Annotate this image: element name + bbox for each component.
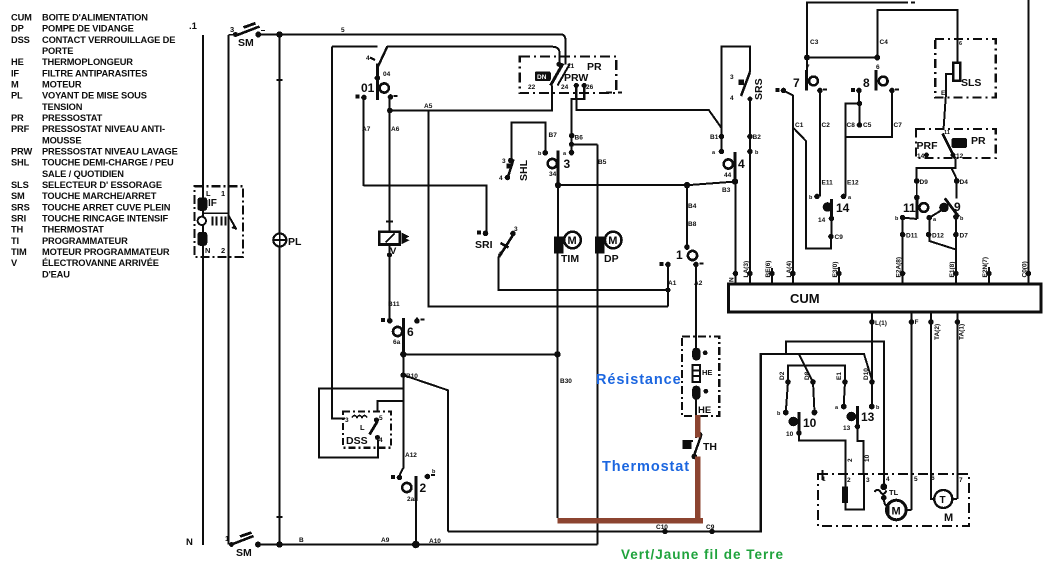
svg-text:HE: HE [11, 57, 24, 67]
wire label 5 [341, 27, 345, 34]
wire SRS bracket [722, 47, 751, 137]
svg-text:V: V [11, 258, 18, 268]
wire switch 14 to C9 [831, 219, 833, 237]
svg-text:11: 11 [944, 130, 950, 136]
wire bus y=185 to switch 4 [558, 182, 736, 186]
svg-text:D12: D12 [932, 233, 944, 240]
node C10 [662, 529, 668, 535]
svg-text:.1: .1 [189, 21, 198, 32]
svg-text:7: 7 [959, 477, 963, 484]
motor TIM [554, 185, 581, 265]
svg-text:13: 13 [861, 410, 875, 424]
wire N rail (filtered) [228, 35, 230, 545]
svg-text:DP: DP [604, 253, 619, 265]
pressostat PRW labels [528, 61, 602, 91]
svg-text:E11: E11 [822, 180, 834, 187]
svg-text:THERMOSTAT: THERMOSTAT [42, 225, 104, 235]
svg-text:DN: DN [537, 74, 547, 81]
svg-text:9: 9 [954, 200, 961, 214]
heater HE internals [692, 348, 712, 416]
wire switch 2 down to bus [415, 501, 417, 545]
svg-text:1: 1 [676, 248, 683, 262]
svg-text:TOUCHE RINCAGE INTENSIF: TOUCHE RINCAGE INTENSIF [42, 214, 168, 224]
svg-text:B30: B30 [560, 378, 572, 385]
svg-text:6a: 6a [393, 339, 401, 346]
motor box dashed [818, 474, 969, 526]
svg-text:PRW: PRW [564, 72, 588, 84]
wire PL rail [279, 35, 281, 545]
svg-text:DSS: DSS [11, 35, 30, 45]
wire D11 to CUM E2A [902, 218, 904, 274]
svg-text:D'EAU: D'EAU [42, 269, 70, 279]
svg-text:B3: B3 [722, 187, 731, 194]
svg-text:L: L [206, 189, 211, 198]
svg-text:14: 14 [818, 217, 826, 224]
svg-text:D10: D10 [863, 368, 870, 380]
svg-text:SELECTEUR D' ESSORAGE: SELECTEUR D' ESSORAGE [42, 180, 162, 190]
wire switch10 output to motor terminal 2 [799, 433, 846, 487]
svg-text:PR: PR [11, 113, 24, 123]
selector SLS dashed box [935, 39, 996, 98]
svg-text:44: 44 [724, 172, 732, 179]
svg-text:N: N [186, 537, 193, 548]
svg-text:2: 2 [847, 458, 854, 462]
wire PRF to 11/9 bracket [917, 159, 957, 199]
switch 3 [548, 151, 571, 186]
svg-text:11: 11 [903, 201, 916, 215]
svg-text:1: 1 [221, 189, 225, 198]
node .1 label [189, 21, 198, 32]
svg-text:E1(8): E1(8) [949, 262, 956, 278]
svg-text:13: 13 [843, 425, 851, 432]
wire A1 down to y=307 [667, 265, 669, 307]
svg-text:4: 4 [366, 55, 370, 62]
wire B1 to switch 4 a [721, 137, 723, 152]
svg-text:6: 6 [407, 325, 414, 339]
wire feeder bracket H2 [761, 354, 873, 532]
svg-text:PL: PL [11, 91, 23, 101]
svg-text:4: 4 [738, 157, 745, 171]
svg-text:10: 10 [803, 416, 817, 430]
node CUM terminal N [729, 271, 739, 284]
wire DP down to bottom bus [596, 254, 598, 545]
switch SHL [499, 158, 530, 182]
svg-text:L: L [360, 423, 365, 432]
node CUM terminal E3(0) [832, 262, 842, 284]
svg-text:TL: TL [889, 488, 899, 497]
node CUM bottom terminal TA(2) [928, 312, 941, 340]
svg-text:8: 8 [863, 76, 870, 90]
switch 8 [851, 64, 899, 93]
svg-text:MOUSSE: MOUSSE [42, 135, 81, 145]
svg-text:SRI: SRI [11, 214, 26, 224]
label Resistance blue [596, 372, 682, 388]
wire B10 node [400, 354, 403, 477]
node D4 [954, 178, 960, 184]
svg-text:HE: HE [702, 368, 712, 377]
wire PRW 24/26 U and down to B6 [572, 86, 585, 136]
wire B6 to switch3/B5 junction [572, 136, 598, 153]
wire C0 from top edge [1028, 0, 1030, 274]
label Vert/Jaune fil de Terre green [621, 547, 784, 562]
svg-text:SM: SM [11, 191, 25, 201]
wire from A5 down x=428.6 to y=307 [429, 111, 668, 307]
svg-text:C0(0): C0(0) [1022, 261, 1029, 277]
svg-text:SRI: SRI [475, 239, 493, 251]
wire feeder bracket H1 to motor terminal 4 [786, 342, 884, 475]
svg-text:B8: B8 [688, 221, 697, 228]
wire switch6 junction right to TIM rail [403, 353, 557, 355]
svg-text:SLS: SLS [11, 180, 29, 190]
svg-text:B: B [299, 537, 304, 544]
wire TA(2) rail to tacho T [931, 322, 934, 499]
svg-text:ÉLECTROVANNE ARRIVÉE: ÉLECTROVANNE ARRIVÉE [42, 258, 159, 268]
svg-text:3: 3 [866, 477, 870, 484]
svg-text:TA(2): TA(2) [934, 324, 941, 340]
svg-text:DP: DP [11, 24, 24, 34]
svg-text:C2: C2 [822, 122, 831, 129]
wire label A9 [381, 537, 390, 544]
svg-text:D4: D4 [960, 179, 969, 186]
svg-text:6: 6 [959, 41, 962, 47]
svg-text:PORTE: PORTE [42, 46, 73, 56]
wire C8/E12 from switch 8a [846, 91, 860, 197]
node junction dot top bus [276, 31, 282, 37]
node CUM terminal E2A(8) [896, 257, 906, 284]
svg-text:24: 24 [561, 84, 569, 91]
svg-text:PR: PR [587, 61, 602, 73]
svg-text:PRW: PRW [11, 147, 32, 157]
wire earth line C10-C9 [448, 354, 761, 532]
svg-text:PRESSOSTAT: PRESSOSTAT [42, 113, 103, 123]
lamp PL [273, 234, 302, 249]
wire DSS terminal 5 tap [378, 401, 404, 412]
switch 01 [356, 46, 398, 100]
svg-text:3: 3 [730, 74, 734, 81]
node junction dot A5 [387, 108, 393, 114]
svg-text:PRF: PRF [11, 124, 30, 134]
node CUM terminal BE(6) [765, 261, 775, 284]
svg-text:2: 2 [847, 477, 851, 484]
svg-text:MOTEUR PROGRAMMATEUR: MOTEUR PROGRAMMATEUR [42, 247, 170, 257]
svg-text:CONTACT VERROUILLAGE DE: CONTACT VERROUILLAGE DE [42, 35, 175, 45]
switch 11 [895, 181, 928, 222]
svg-text:L(1): L(1) [875, 320, 887, 327]
svg-text:SHL: SHL [11, 158, 30, 168]
wire D7 to CUM E1 [955, 217, 957, 274]
pressostat PRF dashed box [916, 129, 996, 158]
svg-text:Vert/Jaune fil de Terre: Vert/Jaune fil de Terre [621, 547, 784, 562]
motor box terminal labels [822, 475, 963, 484]
svg-text:D9: D9 [920, 179, 929, 186]
svg-text:7: 7 [806, 64, 810, 71]
wire B2 through switch 4 b down to CUM LA(3) [749, 137, 751, 274]
label Thermostat blue [602, 459, 690, 475]
wire C7 from switch 8b loop [846, 91, 893, 138]
wire B3 down to CUM N [735, 182, 737, 274]
svg-text:14: 14 [836, 201, 850, 215]
switch SRI [475, 226, 518, 258]
svg-text:10: 10 [864, 454, 871, 462]
svg-text:04: 04 [383, 71, 391, 78]
svg-text:TIM: TIM [561, 253, 579, 265]
svg-text:C9: C9 [706, 524, 715, 531]
thermal cutout TL [875, 342, 899, 501]
svg-text:E1: E1 [836, 372, 843, 380]
thermostat TH [683, 433, 718, 460]
svg-text:A5: A5 [424, 103, 433, 110]
svg-text:3: 3 [345, 417, 349, 424]
wire A2 down to HE [695, 265, 697, 349]
node E1 [842, 379, 848, 385]
wire switch13 output to motor terminal 3 [858, 427, 864, 476]
svg-text:Résistance: Résistance [596, 372, 682, 388]
svg-text:M: M [11, 80, 19, 90]
wire labels 2 and 10 rotated near motor [847, 454, 871, 462]
svg-text:A6: A6 [391, 126, 400, 133]
door switch DSS dashed box [343, 411, 391, 447]
switch 1 [660, 182, 704, 287]
wire earth brown highlight [560, 418, 700, 521]
switch 2 [391, 469, 436, 503]
svg-text:B5: B5 [598, 159, 607, 166]
svg-text:D11: D11 [906, 233, 918, 240]
wire top link 7-8 [807, 57, 877, 59]
selector SLS internals [941, 41, 981, 97]
svg-text:C5: C5 [863, 122, 872, 129]
node CUM terminal E2N(7) [982, 257, 992, 284]
svg-text:TA(1): TA(1) [959, 324, 966, 340]
wire label B30 [560, 378, 572, 385]
wire L rail left [202, 35, 204, 545]
node C9 on earth line [709, 529, 715, 535]
wire label A5 [424, 103, 433, 110]
wire SLS to PRF [944, 93, 947, 130]
svg-text:A1: A1 [668, 280, 677, 287]
node CUM bottom terminal TA(1) [955, 312, 966, 340]
wire C5 stub [859, 104, 861, 126]
svg-text:5: 5 [914, 476, 918, 483]
svg-text:D2: D2 [779, 371, 786, 380]
node B6 [569, 133, 575, 139]
wire C3 from top edge [807, 3, 915, 71]
wire stems to switch 10/13 terminals [786, 382, 872, 412]
node junction switch3 bottom [555, 182, 561, 188]
resistor inside motor box [842, 487, 848, 503]
svg-text:C10: C10 [656, 524, 668, 531]
svg-text:VOYANT DE MISE SOUS: VOYANT DE MISE SOUS [42, 91, 147, 101]
svg-text:22: 22 [528, 84, 536, 91]
svg-text:C8: C8 [847, 122, 856, 129]
node D8 [810, 379, 816, 385]
svg-text:E2N(7): E2N(7) [982, 257, 989, 278]
svg-text:5: 5 [341, 27, 345, 34]
wire label A12 [405, 452, 417, 459]
svg-text:F: F [915, 319, 919, 326]
svg-text:3: 3 [564, 157, 571, 171]
svg-text:C9: C9 [835, 234, 844, 241]
wire D12 diagonal to D7 [929, 218, 956, 250]
svg-text:CUM: CUM [11, 13, 32, 23]
switch 14 [809, 194, 852, 224]
svg-text:C1: C1 [795, 122, 804, 129]
svg-text:TIM: TIM [11, 247, 27, 257]
valve V relay [379, 222, 409, 258]
wire label A10 [429, 538, 441, 545]
svg-text:2: 2 [221, 246, 225, 255]
wire feeder bracket H3 [788, 366, 845, 383]
svg-text:A12: A12 [405, 452, 417, 459]
switch SM top [229, 23, 266, 49]
svg-text:C7: C7 [894, 122, 903, 129]
wire PRW right branch y=110 to B1 [576, 99, 721, 136]
node CUM terminal LA(3) [743, 261, 753, 284]
svg-text:26: 26 [586, 84, 594, 91]
wire SRI down and right to A1 [499, 257, 668, 291]
wire TIM down to earth join [557, 254, 559, 518]
wire HE bottom to TH [695, 400, 697, 438]
wire B10 diagonal to x=448 rail [403, 375, 448, 531]
node CUM bottom terminal L(1) [869, 312, 887, 327]
svg-text:B1: B1 [710, 134, 719, 141]
svg-text:D8: D8 [804, 371, 811, 380]
svg-text:FILTRE ANTIPARASITES: FILTRE ANTIPARASITES [42, 68, 147, 78]
wire A5 horizontal [390, 86, 552, 111]
node CUM terminal E1(8) [949, 262, 959, 284]
svg-text:D7: D7 [960, 233, 969, 240]
svg-text:3: 3 [514, 226, 518, 233]
svg-text:TENSION: TENSION [42, 102, 83, 112]
svg-text:THERMOPLONGEUR: THERMOPLONGEUR [42, 57, 133, 67]
svg-text:3: 3 [230, 25, 234, 34]
svg-text:LA(4): LA(4) [786, 261, 793, 278]
svg-text:SRS: SRS [753, 78, 765, 100]
heater HE dashed box [682, 336, 719, 416]
pressostat PRF internals [917, 130, 987, 160]
node CUM terminal C0(0) [1022, 261, 1032, 284]
node B2 [747, 134, 753, 140]
svg-text:01: 01 [361, 81, 375, 95]
svg-text:E12: E12 [847, 180, 859, 187]
svg-text:10: 10 [786, 431, 794, 438]
tacho generator T [934, 490, 957, 524]
wire frame line y=46.5 to switch 01 [332, 47, 560, 63]
svg-text:E3(0): E3(0) [832, 262, 839, 278]
svg-text:TOUCHE DEMI-CHARGE / PEU: TOUCHE DEMI-CHARGE / PEU [42, 158, 174, 168]
svg-text:A7: A7 [362, 126, 371, 133]
svg-text:SRS: SRS [11, 202, 30, 212]
wire B10 loop to DSS terminal 4 [319, 388, 404, 457]
wire frame vertical x=332 down to DSS [332, 47, 345, 419]
wire A7-SRI horizontal y=185.5 [364, 186, 487, 234]
svg-text:TOUCHE ARRET CUVE PLEIN: TOUCHE ARRET CUVE PLEIN [42, 202, 171, 212]
node junction switch6 bottom [400, 351, 406, 357]
svg-text:TI: TI [11, 236, 19, 246]
pressostat PRW switch levers [551, 62, 587, 88]
svg-text:LA(3): LA(3) [743, 261, 750, 278]
node D2 [785, 379, 791, 385]
svg-text:PRF: PRF [917, 140, 939, 152]
switch SM bottom [225, 533, 261, 560]
wire B5 [597, 144, 599, 236]
svg-text:4: 4 [730, 95, 734, 102]
svg-text:MOTEUR: MOTEUR [42, 80, 82, 90]
node B1 [719, 134, 725, 140]
wire diagonal to D8 [799, 354, 813, 382]
door switch DSS internals [345, 415, 383, 447]
node B7 terminal [542, 150, 548, 156]
svg-text:SM: SM [238, 37, 254, 49]
svg-text:M: M [944, 512, 953, 524]
wire label B bottom [299, 537, 304, 544]
svg-text:5: 5 [379, 415, 383, 422]
svg-text:DSS: DSS [346, 435, 368, 447]
svg-text:HE: HE [698, 405, 711, 416]
node tick marks on PL rail [277, 80, 283, 517]
svg-text:TOUCHE MARCHE/ARRET: TOUCHE MARCHE/ARRET [42, 191, 157, 201]
svg-text:M: M [568, 235, 577, 247]
switch SRS [730, 72, 765, 136]
node dot at PL rail bottom [276, 541, 282, 547]
svg-text:B11: B11 [388, 301, 400, 308]
switch 6 [381, 318, 425, 355]
svg-text:4: 4 [499, 175, 503, 182]
switch SHL bracket [512, 123, 546, 160]
terminal block CUM [729, 284, 1042, 312]
motor terminal 1 stub [822, 470, 824, 480]
wire label A6 [391, 126, 400, 133]
svg-text:PRESSOSTAT NIVEAU ANTI-: PRESSOSTAT NIVEAU ANTI- [42, 124, 165, 134]
svg-text:IF: IF [11, 68, 19, 78]
filter IF internals [197, 189, 236, 255]
svg-text:BE(6): BE(6) [765, 261, 772, 278]
node CUM bottom terminal F [909, 312, 919, 326]
filter IF dashed box [194, 186, 243, 257]
wire label B11 [388, 301, 400, 308]
svg-text:C3: C3 [810, 39, 819, 46]
svg-text:SM: SM [236, 547, 252, 559]
wire A7 from 01 left terminal [363, 98, 365, 187]
wire C1 from switch 7a down to CUM LA(4) [784, 91, 794, 274]
switch 10 [777, 410, 817, 438]
svg-text:B6: B6 [575, 135, 584, 142]
switch 4 [712, 149, 759, 182]
svg-text:A9: A9 [381, 537, 390, 544]
svg-text:PROGRAMMATEUR: PROGRAMMATEUR [42, 236, 128, 246]
wire F rail through terminal 5 to motor M [906, 322, 911, 510]
svg-text:M: M [608, 235, 617, 247]
svg-text:1: 1 [225, 534, 229, 543]
svg-text:7: 7 [793, 76, 800, 90]
svg-text:TH: TH [703, 441, 717, 453]
svg-text:B7: B7 [549, 132, 558, 139]
node D9 [914, 178, 920, 184]
svg-text:PL: PL [288, 236, 302, 248]
svg-text:SHL: SHL [518, 159, 530, 181]
svg-text:E2A(8): E2A(8) [896, 257, 903, 278]
svg-text:SLS: SLS [961, 77, 981, 89]
svg-text:14: 14 [917, 153, 925, 160]
motor M main [884, 498, 906, 520]
wire PRW 22 down to A5 line [551, 86, 553, 111]
svg-text:B4: B4 [688, 203, 697, 210]
svg-text:3: 3 [502, 158, 506, 165]
wire C4 with top bus to SLS [877, 10, 957, 63]
wire TA(1) rail through terminal 7 to tacho [957, 322, 959, 499]
switch 7 [776, 64, 828, 93]
svg-text:SALE / QUOTIDIEN: SALE / QUOTIDIEN [42, 169, 124, 179]
wire C1 branch to C9 U [794, 128, 832, 249]
